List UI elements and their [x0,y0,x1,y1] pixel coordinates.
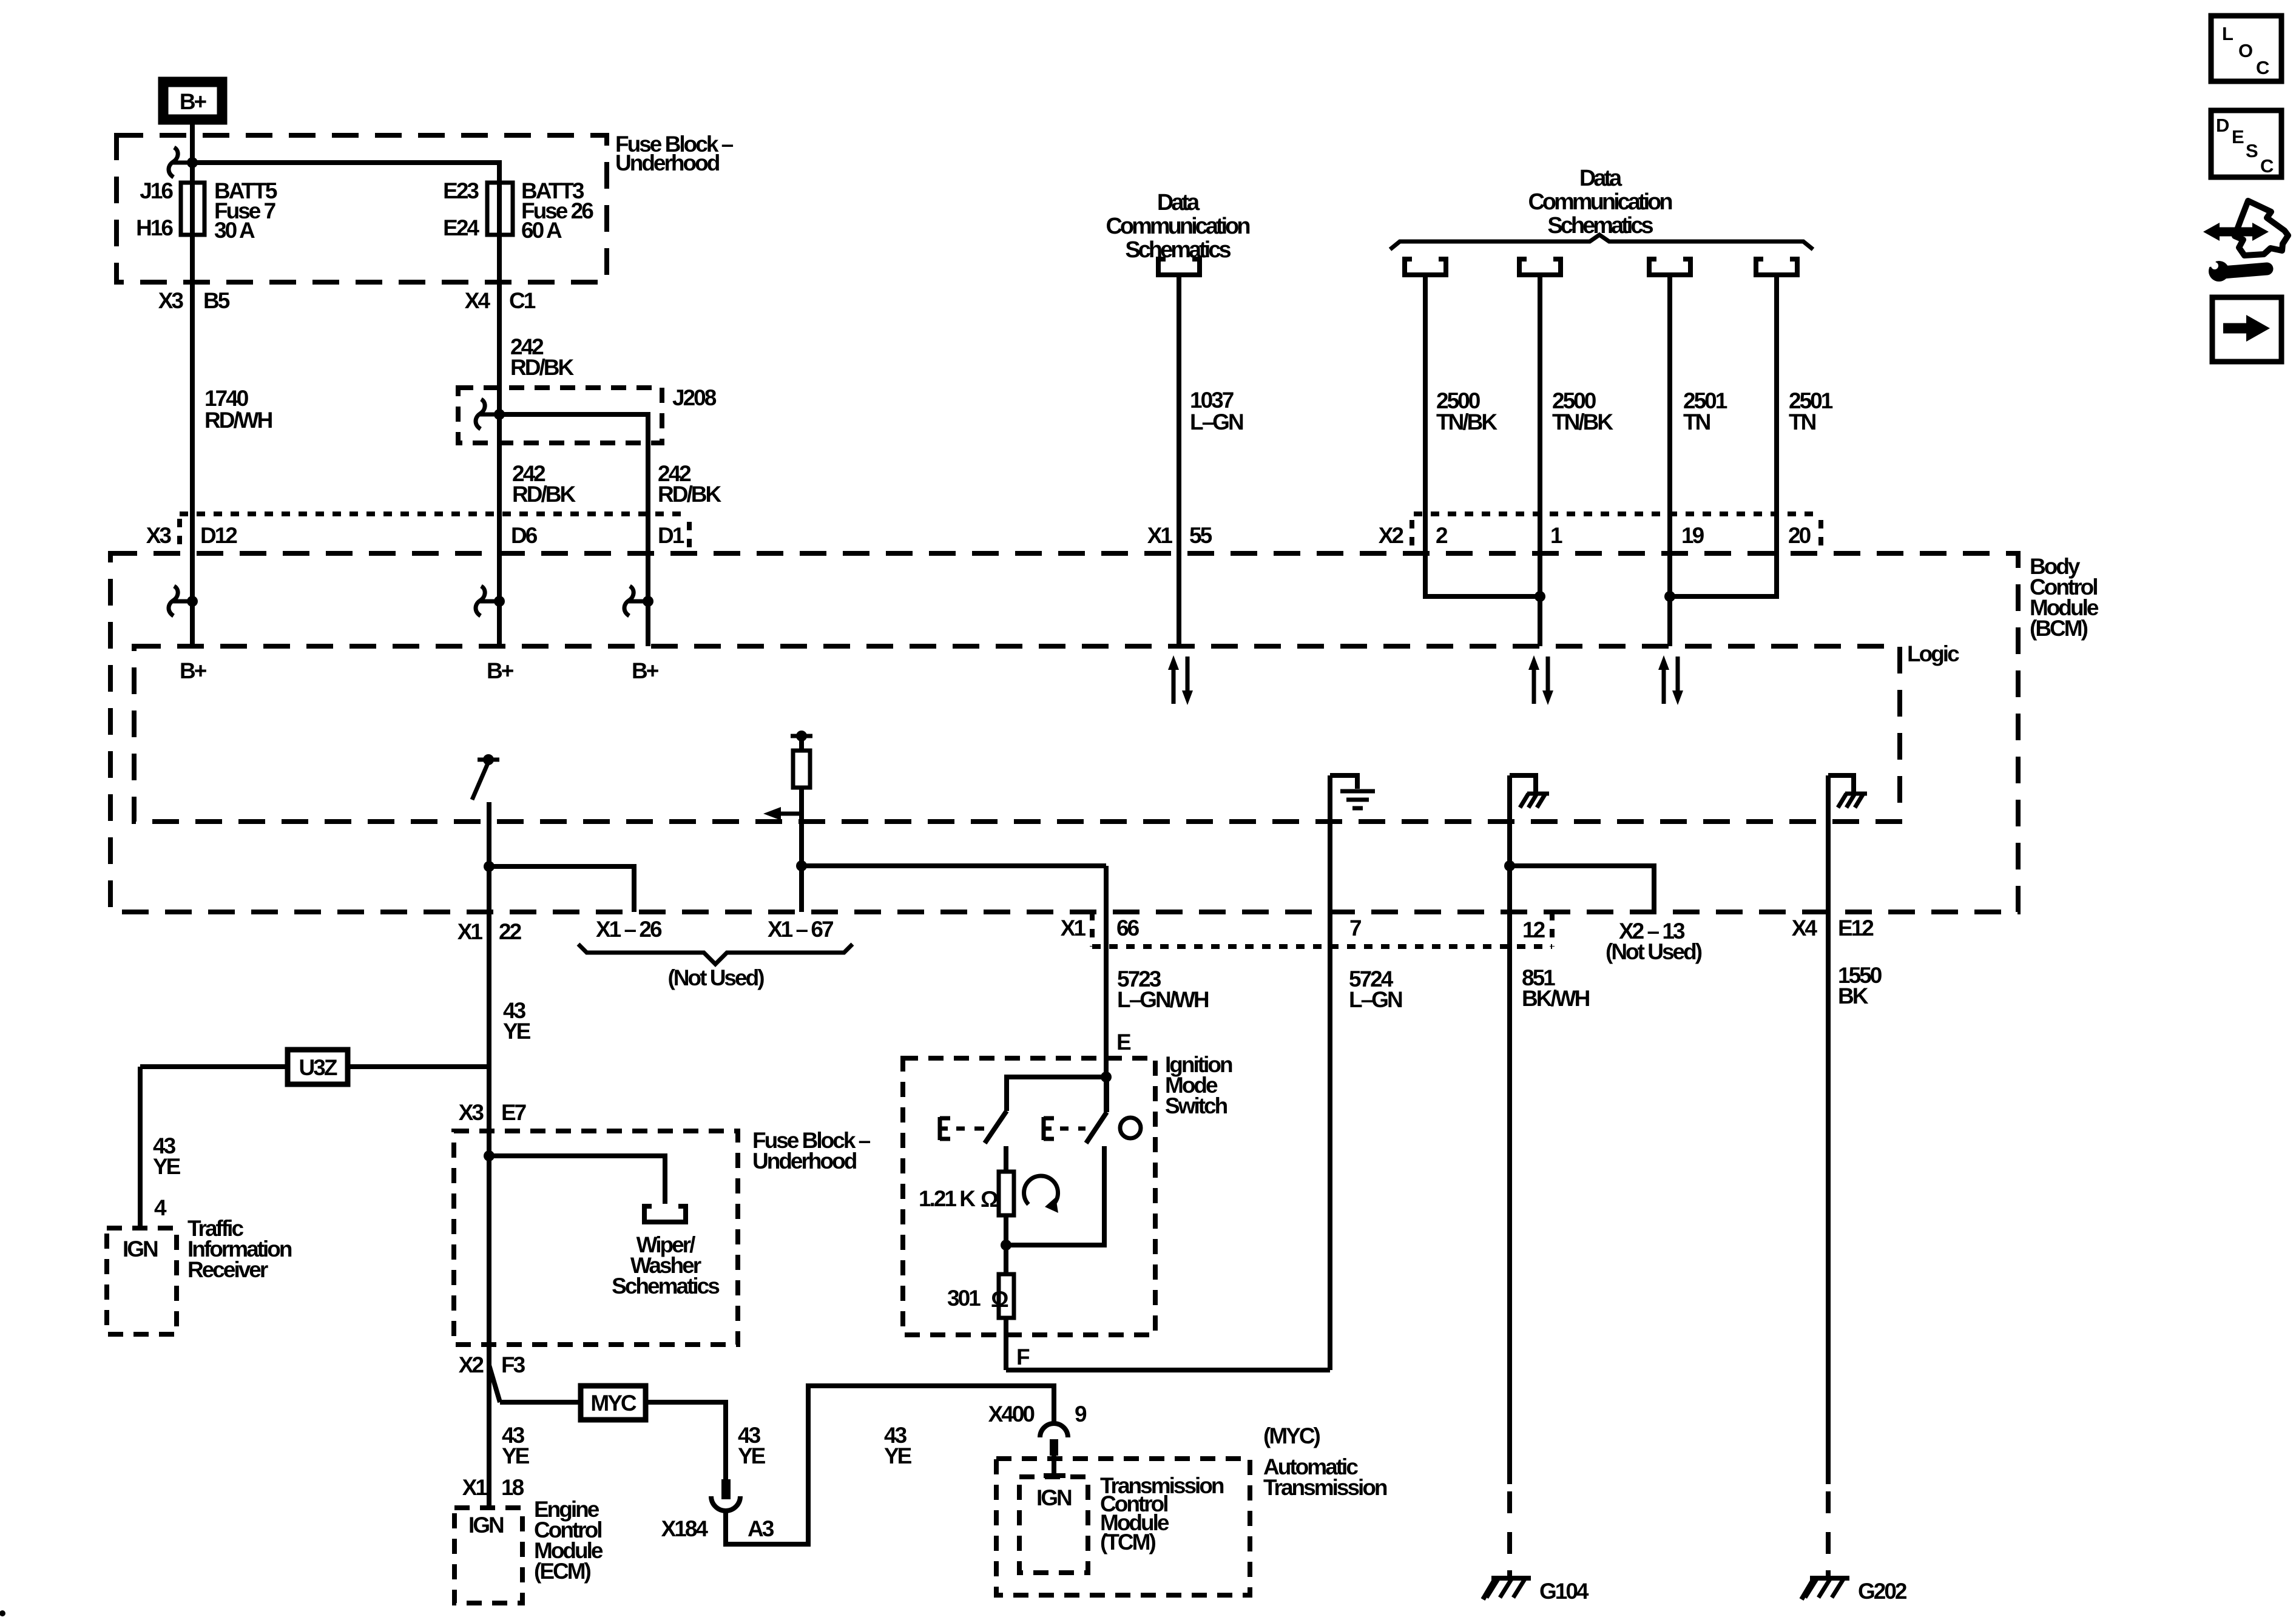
svg-text:Underhood: Underhood [752,1149,857,1173]
svg-text:B+: B+ [487,658,514,683]
forward arrow box [2212,297,2281,362]
fuse BATT3 Fuse 26 60A [443,178,593,243]
switch 2 contact [1044,1117,1086,1140]
svg-text:E12: E12 [1838,916,1874,940]
svg-text:H16: H16 [136,215,173,240]
svg-text:2: 2 [1436,523,1448,548]
stub to pin X2-13 [1510,866,1654,912]
svg-text:Underhood: Underhood [615,150,720,175]
svg-text:Transmission: Transmission [1263,1475,1387,1500]
wire from switch to pin X1 22 [487,802,491,1508]
svg-text:TN/BK: TN/BK [1436,410,1497,434]
clip splice at D1 [624,586,653,616]
svg-text:BK: BK [1838,984,1869,1008]
svg-text:IGN: IGN [468,1513,504,1538]
svg-text:Ω: Ω [991,1287,1008,1312]
svg-text:Communication: Communication [1106,214,1249,239]
svg-text:1.21 K: 1.21 K [919,1186,976,1211]
svg-text:1740: 1740 [204,386,249,411]
LOC reference box [2211,16,2281,81]
internal wire joining 2501 pair [1670,594,1777,599]
svg-text:E23: E23 [443,178,479,203]
battery feed B+ box [163,82,222,120]
svg-text:YE: YE [503,1019,531,1044]
svg-text:U3Z: U3Z [299,1055,337,1080]
svg-text:Receiver: Receiver [187,1257,268,1282]
wire 1550 dashed tail [1826,1491,1831,1555]
switch 2 blade [1086,1112,1107,1143]
svg-text:S: S [2246,140,2258,161]
U3Z label box [140,1050,489,1084]
svg-text:55: 55 [1189,523,1212,548]
svg-text:(ECM): (ECM) [534,1559,591,1584]
transmission control module (TCM) box [996,1459,1250,1595]
bidirectional arrows under pins 19/20 [1658,655,1683,705]
wire 242 RD/BK main [497,235,502,646]
svg-text:B+: B+ [180,658,207,683]
svg-text:C: C [2260,155,2274,177]
junction to wiper/washer [484,1150,495,1161]
data communication schematics header (left) [1106,190,1249,263]
svg-text:B+: B+ [180,89,207,114]
svg-text:E: E [1116,1030,1131,1055]
svg-text:12: 12 [1522,917,1545,942]
svg-text:B+: B+ [632,658,659,683]
svg-text:9: 9 [1075,1402,1087,1426]
svg-text:D: D [2216,115,2229,136]
svg-text:RD/BK: RD/BK [512,482,576,507]
MYC label box [581,1386,646,1420]
wire 43 YE to traffic information receiver [138,1067,143,1228]
wire 851 dashed tail [1507,1491,1512,1555]
svg-text:20: 20 [1788,523,1811,548]
svg-text:F: F [1016,1345,1030,1369]
traffic information receiver box [107,1228,177,1334]
svg-text:L–GN: L–GN [1190,410,1243,434]
wire 2500 TN/BK #1 [1423,277,1428,599]
svg-text:TN: TN [1683,410,1710,434]
svg-text:Ω: Ω [981,1187,998,1212]
resistor in logic [763,731,812,912]
brace over data comm connectors [1390,235,1813,249]
svg-text:60 A: 60 A [521,218,562,243]
resistor 1.21 K ohm [999,1172,1014,1215]
svg-text:E24: E24 [443,215,479,240]
svg-text:RD/WH: RD/WH [204,408,272,433]
ground symbol (chassis) at pin 12 [1510,775,1549,808]
connector row X2 (2 1 19 20) [1379,514,1821,548]
svg-text:X1 – 26: X1 – 26 [596,917,662,942]
wire A3 to X400 [726,1386,1054,1544]
switch 1 contact [940,1117,984,1140]
wire bus to BATT3 [192,163,499,235]
svg-text:X4: X4 [465,288,491,313]
svg-text:X1: X1 [462,1475,488,1500]
svg-text:RD/BK: RD/BK [658,482,721,507]
wire pin 12 / 851 [1507,775,1512,1484]
switch 2 branch [1006,1146,1104,1245]
svg-text:A3: A3 [748,1516,774,1541]
wire pin E12 / 1550 [1826,775,1831,1484]
resistor 301 ohm [999,1274,1014,1318]
svg-text:Data: Data [1579,166,1622,191]
svg-text:D12: D12 [200,523,237,548]
svg-text:MYC: MYC [590,1391,636,1416]
svg-text:IGN: IGN [123,1237,158,1261]
svg-text:TN/BK: TN/BK [1552,410,1613,434]
svg-text:(TCM): (TCM) [1100,1530,1155,1555]
svg-text:X1: X1 [458,919,483,944]
TCM IGN box [1019,1477,1088,1573]
clip splice at D6 [476,586,505,616]
stub to pin X1 66 [802,863,1106,868]
svg-text:O: O [2238,40,2253,61]
svg-text:D6: D6 [511,523,538,548]
svg-text:Communication: Communication [1528,189,1672,215]
svg-text:G202: G202 [1858,1579,1907,1604]
off-page connector 2501 #2 [1756,257,1797,275]
svg-text:66: 66 [1116,916,1140,940]
svg-text:18: 18 [501,1475,524,1500]
stub to pin X1-26 [489,866,634,912]
wire E to switches [1007,1077,1106,1111]
ignition mode switch box [903,1058,1155,1335]
svg-text:YE: YE [502,1443,530,1468]
off-page connector 2500 #2 [1519,257,1561,275]
fuse block underhood box (top) [116,135,607,282]
wire 2500 TN/BK #2 [1538,277,1542,646]
svg-text:Schematics: Schematics [1125,237,1231,263]
logic box [134,646,1900,822]
rotation arrow [1024,1176,1058,1213]
off-page connector 2501 #1 [1649,257,1690,275]
wire 5723 L-GN/WH [1104,866,1109,1112]
wire 2501 TN #1 [1667,277,1672,646]
svg-text:X1: X1 [1061,916,1086,940]
svg-text:X1 – 67: X1 – 67 [768,917,833,942]
fuse BATT5 Fuse 7 30A [136,178,277,243]
DESC reference box [2211,110,2281,177]
wire pin 7 / 5724 [1328,775,1332,1370]
svg-text:Schematics: Schematics [612,1274,720,1298]
wire 1740 RD/WH [190,235,195,646]
switch 2 indicator circle [1120,1118,1141,1138]
connector X184 A3 [661,1479,774,1541]
ground G202 [1801,1570,1907,1604]
wire 1.21K to junction [1004,1215,1008,1274]
brace (Not Used) under 26/67 [578,944,853,964]
diagnostic hand/wrench icon [2203,201,2288,282]
svg-text:L: L [2222,23,2234,44]
svg-text:X2: X2 [1379,523,1404,548]
svg-text:IGN: IGN [1036,1485,1072,1510]
svg-text:22: 22 [499,919,522,944]
svg-text:G104: G104 [1539,1579,1589,1604]
bidirectional arrows under X1 55 [1168,655,1193,705]
ground symbol (chassis) at pin E12 [1828,775,1867,808]
svg-text:J208: J208 [672,385,717,410]
svg-text:RD/BK: RD/BK [510,355,574,380]
svg-text:19: 19 [1681,523,1704,548]
svg-text:X1: X1 [1147,523,1173,548]
svg-text:B5: B5 [203,288,230,313]
wire 242 RD/BK branch [499,414,648,646]
wire F output [1004,1318,1008,1370]
svg-text:YE: YE [153,1154,181,1179]
svg-text:C1: C1 [509,288,536,313]
svg-text:7: 7 [1349,916,1361,940]
ground G104 [1483,1570,1589,1604]
svg-text:X4: X4 [1792,916,1818,940]
wire 1037 L-GN [1177,277,1181,646]
svg-text:1: 1 [1550,523,1562,548]
off-page connector 2500 #1 [1405,257,1446,275]
svg-text:E: E [2232,126,2244,147]
svg-text:X3: X3 [459,1100,484,1125]
connector row X3 (D12 D6 D1) [146,514,689,551]
svg-text:L–GN: L–GN [1349,987,1402,1012]
svg-text:301: 301 [947,1286,981,1311]
svg-text:Logic: Logic [1907,641,1959,666]
fuse block underhood box (lower) [454,1131,738,1345]
splice J208 [458,385,717,443]
wire 2501 TN #2 [1774,277,1779,599]
off-page connector for 1037 [1158,257,1200,275]
svg-text:X2: X2 [459,1352,484,1377]
connector X400 9 [988,1402,1087,1476]
svg-text:X3: X3 [146,523,172,548]
wire B+ to fuse BATT5 [190,124,195,235]
switch in logic [472,754,499,800]
switch 1 blade [985,1111,1007,1143]
svg-text:D1: D1 [658,523,684,548]
svg-text:X3: X3 [158,288,184,313]
wire branch to MYC [489,1365,500,1402]
page speck [0,1610,5,1616]
svg-text:1037: 1037 [1190,388,1234,413]
svg-text:YE: YE [738,1443,766,1468]
svg-text:X184: X184 [661,1516,709,1541]
svg-text:Switch: Switch [1165,1093,1227,1118]
svg-text:30 A: 30 A [214,218,255,243]
svg-text:(Not Used): (Not Used) [1606,939,1702,964]
svg-text:TN: TN [1789,410,1816,434]
data communication schematics header (right) [1528,166,1672,238]
wire MYC to X184 [646,1402,726,1479]
svg-text:(BCM): (BCM) [2030,616,2088,641]
off-page connector wiper/washer [644,1204,686,1222]
bidirectional arrows under pins 1/2 [1528,655,1553,705]
wire to 1.21K resistor [1004,1146,1008,1172]
svg-text:L–GN/WH: L–GN/WH [1117,987,1209,1012]
svg-text:X400: X400 [988,1402,1035,1426]
body control module (BCM) box [110,553,2018,912]
internal wire joining 2500 pair [1425,594,1540,599]
svg-text:(MYC): (MYC) [1263,1423,1320,1448]
svg-text:J16: J16 [140,178,173,203]
wire F to 5724 [1006,1368,1330,1372]
svg-text:Data: Data [1157,190,1200,215]
svg-text:C: C [2256,57,2269,78]
connector row X1 (66 7 12) [1092,944,1552,949]
splice clip at B+ bus [169,147,198,177]
svg-text:YE: YE [884,1443,912,1468]
svg-text:F3: F3 [501,1352,525,1377]
svg-text:BK/WH: BK/WH [1522,986,1590,1011]
ground symbol (earth) at pin 7 [1330,775,1375,808]
svg-text:(Not Used): (Not Used) [667,965,764,990]
engine control module (ECM) box [454,1508,522,1603]
clip splice at D12 [169,586,198,616]
svg-text:E7: E7 [501,1100,526,1125]
